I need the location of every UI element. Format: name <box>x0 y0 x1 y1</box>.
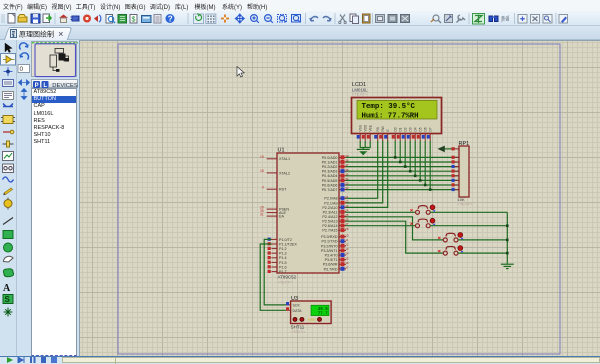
menu bar <box>0 0 600 11</box>
svg-text:P3.4/T0: P3.4/T0 <box>325 254 338 258</box>
svg-text:36: 36 <box>345 168 349 172</box>
wire U1 P1.0 to SHT11 SCK <box>264 239 286 305</box>
svg-text:P0.4/AD4: P0.4/AD4 <box>322 174 338 178</box>
svg-text:P2.4/A12: P2.4/A12 <box>322 215 337 219</box>
svg-text:9: 9 <box>262 185 264 189</box>
junction node D2/P0.2 <box>404 165 407 168</box>
svg-text:VDD: VDD <box>364 124 368 131</box>
svg-text:D4: D4 <box>414 127 418 131</box>
svg-text:P2.6/A14: P2.6/A14 <box>322 224 337 228</box>
wire P0.4 row U1 to RP1 with branch up to LCD D4 <box>346 141 460 176</box>
svg-text:P1.5: P1.5 <box>279 261 287 265</box>
svg-text:16: 16 <box>345 261 349 265</box>
button 2 <box>410 218 435 227</box>
wire P0.1 row U1 to RP1 with branch up to LCD D1 <box>346 141 460 162</box>
wire button4 output to common bus <box>458 252 507 254</box>
svg-text:D5: D5 <box>419 127 423 131</box>
svg-text:D3: D3 <box>409 127 413 131</box>
svg-text:%RH: %RH <box>308 318 316 322</box>
svg-text:19: 19 <box>260 155 264 159</box>
svg-text:P2.1/A9: P2.1/A9 <box>324 201 337 205</box>
svg-text:P1.1/T2EX: P1.1/T2EX <box>279 242 297 246</box>
wire P0.5 row U1 to RP1 with branch up to LCD D5 <box>346 141 460 180</box>
svg-text:?: ? <box>168 15 173 24</box>
ground (buttons common) <box>501 264 514 268</box>
ground (LCD supply) <box>357 149 370 155</box>
svg-text:VSS: VSS <box>359 125 363 131</box>
svg-text:VEE: VEE <box>369 125 373 131</box>
wire U1 P2.4 to button3 <box>346 217 444 240</box>
svg-text:Humi: 77.7%RH: Humi: 77.7%RH <box>362 112 419 120</box>
svg-text:P3.6/WR: P3.6/WR <box>323 263 338 267</box>
svg-text:31: 31 <box>260 212 264 216</box>
svg-text:S: S <box>5 295 11 304</box>
wire common bus vertical to ground <box>506 212 508 263</box>
svg-text:15: 15 <box>345 256 349 260</box>
svg-text:RW: RW <box>381 126 385 131</box>
wire U1 P1.1 to SHT11 DATA <box>260 244 286 310</box>
wire LCD RW to U1 P2.1 <box>346 141 383 203</box>
svg-text:12: 12 <box>345 243 349 247</box>
svg-text:P3.1/TXD: P3.1/TXD <box>322 240 338 244</box>
toolbar <box>0 11 600 26</box>
junction node button4/bus <box>506 252 509 255</box>
svg-text:P1.0/T2: P1.0/T2 <box>279 238 292 242</box>
svg-text:35: 35 <box>345 172 349 176</box>
svg-text:A: A <box>3 283 11 294</box>
svg-text:14: 14 <box>345 252 349 256</box>
wire button1 output to common bus <box>430 211 507 213</box>
svg-text:P2.7/A15: P2.7/A15 <box>322 229 337 233</box>
wire P0.3 row U1 to RP1 with branch up to LCD D3 <box>346 141 460 171</box>
svg-text:39.5: 39.5 <box>318 308 329 312</box>
svg-text:P2.0/A8: P2.0/A8 <box>324 197 337 201</box>
svg-text:P0.1/AD1: P0.1/AD1 <box>322 160 338 164</box>
status bar <box>0 356 600 357</box>
svg-text:77.7: 77.7 <box>318 313 329 317</box>
junction node D5/P0.5 <box>419 179 422 182</box>
svg-text:23: 23 <box>345 204 349 208</box>
rotate column <box>17 40 31 356</box>
wire LCD VSS/VDD/VEE down to ground <box>360 141 370 149</box>
svg-text:13: 13 <box>345 247 349 251</box>
junction node D4/P0.4 <box>414 175 417 178</box>
svg-text:32: 32 <box>345 186 349 190</box>
svg-text:P3.2/INT0: P3.2/INT0 <box>321 244 338 248</box>
wire LCD RS to U1 P2.0 <box>346 141 378 198</box>
sheet border <box>118 44 560 354</box>
svg-text:37: 37 <box>345 163 349 167</box>
svg-text:P2.3/A11: P2.3/A11 <box>323 210 338 214</box>
wire P0.7 row U1 to RP1 with branch up to LCD D7 <box>346 141 460 190</box>
svg-text:EA: EA <box>279 215 284 219</box>
svg-text:39: 39 <box>345 154 349 158</box>
svg-text:P1.7: P1.7 <box>279 270 287 274</box>
svg-text:10: 10 <box>345 233 349 237</box>
svg-text:P0.7/AD7: P0.7/AD7 <box>322 188 338 192</box>
svg-text:$: $ <box>132 17 136 24</box>
wire U1 P2.3 to button1 <box>346 211 416 213</box>
wire LCD E to U1 P2.2 <box>346 141 388 207</box>
left vertical toolbar <box>0 40 17 356</box>
svg-text:18: 18 <box>260 169 264 173</box>
svg-text:P2.2/A10: P2.2/A10 <box>322 206 337 210</box>
lcd display LCD1 LM016L <box>352 82 442 141</box>
svg-text:P0.6/AD6: P0.6/AD6 <box>322 183 338 187</box>
button 1 <box>410 205 435 214</box>
svg-text:33: 33 <box>345 182 349 186</box>
left panel <box>31 40 79 356</box>
junction node button2/bus <box>506 224 509 227</box>
svg-text:D0: D0 <box>394 127 398 131</box>
svg-text:SCK: SCK <box>293 304 301 308</box>
wire U1 P2.5 to button4 <box>346 221 444 253</box>
button 4 <box>438 246 463 255</box>
junction node D0/P0.0 <box>394 156 397 159</box>
schematic canvas <box>79 40 600 356</box>
resistor pack RP1 RESPACK-8 <box>452 141 474 207</box>
svg-text:<TEXT>: <TEXT> <box>278 280 294 285</box>
svg-text:P2.5/A13: P2.5/A13 <box>322 220 337 224</box>
svg-text:RS: RS <box>376 127 380 131</box>
junction node D3/P0.3 <box>409 170 412 173</box>
svg-text:P1.6: P1.6 <box>279 265 287 269</box>
svg-text:0: 0 <box>20 66 24 73</box>
svg-text:P0.0/AD0: P0.0/AD0 <box>322 156 338 160</box>
svg-text:11: 11 <box>345 238 348 242</box>
svg-text:21: 21 <box>345 195 349 199</box>
svg-text:XTAL2: XTAL2 <box>279 171 290 175</box>
junction node D7/P0.7 <box>429 188 432 191</box>
mouse cursor <box>237 67 244 78</box>
svg-text:P3.7/RD: P3.7/RD <box>324 267 338 271</box>
svg-text:D6: D6 <box>424 127 428 131</box>
svg-text:Temp: 39.5°C: Temp: 39.5°C <box>362 102 416 111</box>
junction node button3/bus <box>506 239 509 242</box>
wire P0.2 row U1 to RP1 with branch up to LCD D2 <box>346 141 460 167</box>
svg-text:D1: D1 <box>399 127 403 131</box>
svg-text:P0.5/AD5: P0.5/AD5 <box>322 179 338 183</box>
power terminal VCC arrow at RP1 pin 1 <box>438 146 456 153</box>
svg-text:22: 22 <box>345 200 349 204</box>
button 3 <box>438 233 463 242</box>
svg-text:P1.2: P1.2 <box>279 247 287 251</box>
tab bar <box>0 26 600 40</box>
svg-text:28: 28 <box>345 227 349 231</box>
svg-text:<TEXT>: <TEXT> <box>458 202 474 207</box>
wire U1 P2.6 to button2 <box>346 225 416 227</box>
svg-text:P0.2/AD2: P0.2/AD2 <box>322 165 338 169</box>
svg-text:RST: RST <box>279 188 287 192</box>
svg-text:D7: D7 <box>429 127 433 131</box>
mcu U1 AT89C52 <box>260 148 349 285</box>
svg-text:P1.4: P1.4 <box>279 256 287 260</box>
svg-text:P3.5/T1: P3.5/T1 <box>325 258 338 262</box>
wire button3 output to common bus <box>458 239 507 241</box>
wire P0.6 row U1 to RP1 with branch up to LCD D6 <box>346 141 460 185</box>
junction node D1/P0.1 <box>399 161 402 164</box>
svg-text:D2: D2 <box>404 127 408 131</box>
svg-text:17: 17 <box>345 266 349 270</box>
svg-text:38: 38 <box>345 159 349 163</box>
sensor U3 SHT11 <box>286 296 331 334</box>
junction node D6/P0.6 <box>424 184 427 187</box>
svg-text:<TEXT>: <TEXT> <box>291 329 307 334</box>
svg-text:P3.3/INT1: P3.3/INT1 <box>321 249 338 253</box>
wire button2 output to common bus <box>430 225 507 227</box>
svg-text:P1.3: P1.3 <box>279 252 287 256</box>
svg-text:P0.3/AD3: P0.3/AD3 <box>322 170 338 174</box>
svg-text:E: E <box>386 129 390 131</box>
svg-text:34: 34 <box>345 177 349 181</box>
svg-text:P3.0/RXD: P3.0/RXD <box>321 235 338 239</box>
wire P0.0 row U1 to RP1 with branch up to LCD D0 <box>346 141 460 157</box>
svg-text:XTAL1: XTAL1 <box>279 157 290 161</box>
svg-text:DATA: DATA <box>293 309 303 313</box>
svg-text:<TEXT>: <TEXT> <box>352 92 368 97</box>
